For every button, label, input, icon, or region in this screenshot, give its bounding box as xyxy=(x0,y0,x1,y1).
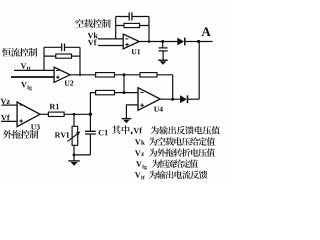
label Vf input xyxy=(1,115,10,121)
resistor R1-node-to-U4 input xyxy=(96,90,115,94)
label U1 xyxy=(131,49,140,54)
wire to summing node xyxy=(115,74,141,76)
ground at U4 input xyxy=(122,119,132,124)
wire U2 feedback right vertical xyxy=(79,47,81,75)
label no-load control 空载控制 xyxy=(75,19,111,28)
label Vz input xyxy=(1,99,10,105)
wire to U4 inverting input xyxy=(115,92,139,94)
capacitor U1 feedback xyxy=(129,12,132,20)
node A junction xyxy=(197,40,200,43)
node A label xyxy=(202,27,211,36)
wire capacitor to ground xyxy=(162,51,164,60)
resistor U2-to-U4 input xyxy=(96,73,115,77)
legend line 3 Vz 为外拖转折电压值 xyxy=(135,148,215,156)
wire bottom rail xyxy=(74,154,90,156)
wire to ground xyxy=(73,155,75,161)
label U4 xyxy=(154,107,163,112)
wire VIg to U2 non-inverting input xyxy=(11,76,54,78)
resistor R1 xyxy=(48,112,64,116)
wire U4 non-inverting to ground xyxy=(126,105,138,118)
resistor U2 feedback xyxy=(44,54,80,58)
wire down to RV1 xyxy=(73,114,75,126)
wire R1 to junctions xyxy=(64,113,90,115)
label VIf input xyxy=(21,63,31,70)
capacitor C1 xyxy=(85,131,96,134)
capacitor U2 feedback xyxy=(62,43,65,51)
resistor U1 feedback xyxy=(116,23,149,27)
wire U1 feedback left vertical xyxy=(115,17,117,39)
ground xyxy=(158,60,168,64)
op-amp U4 xyxy=(138,88,160,111)
resistor U4 feedback xyxy=(140,73,157,77)
wire U2 output xyxy=(70,74,96,76)
wire Vz to U3 inverting input xyxy=(2,104,18,106)
legend line 5 VIf 为输出电流反馈 xyxy=(135,170,207,179)
wire C1 to bottom rail xyxy=(89,134,91,155)
label constant-current control 恒流控制 xyxy=(2,48,37,57)
label C1 xyxy=(99,130,108,136)
wire D1 to node A xyxy=(186,41,213,43)
label U2 xyxy=(65,81,74,86)
diode D2 xyxy=(180,95,188,103)
junction RV1 tap xyxy=(73,113,76,116)
wire from R1 node up to lower summing resistor xyxy=(90,93,95,115)
label VIg input xyxy=(21,82,32,90)
op-amp U3 xyxy=(17,102,40,127)
legend line 2 Vk 为空载电压给定值 xyxy=(135,137,215,145)
junction U2 output feedback xyxy=(79,74,82,77)
label RV1 xyxy=(55,132,69,137)
diode D1 xyxy=(177,38,185,46)
wire U2 feedback top xyxy=(44,46,80,48)
wire U1 feedback right vertical xyxy=(148,17,150,42)
junction summing node top xyxy=(123,73,126,76)
junction C1 column xyxy=(89,113,92,116)
capacitor to ground xyxy=(159,48,168,51)
legend line 4 VIg 为恒流给定值 xyxy=(136,159,198,169)
label Vk xyxy=(88,32,98,38)
wire summing node vertical xyxy=(123,75,125,93)
ground at RV1 xyxy=(68,161,79,166)
wire Vk to U1 inverting input xyxy=(98,38,123,40)
wire Vf to U3 non-inverting input xyxy=(1,120,17,122)
wire C1 column upper xyxy=(89,114,91,131)
wire U4 feedback right xyxy=(157,75,173,99)
wire capacitor branch xyxy=(162,42,164,48)
wire node A down to U4 output diode xyxy=(198,42,200,100)
junction U4 output feedback xyxy=(171,98,174,101)
junction U1 output feedback xyxy=(148,40,151,43)
wire U1 feedback top xyxy=(116,16,149,18)
wire D2 to node A vertical xyxy=(188,98,199,100)
potentiometer RV1 xyxy=(67,126,80,145)
label Vf xyxy=(88,39,97,45)
junction U1 output capacitor tap xyxy=(161,40,164,43)
wire U3 output xyxy=(40,113,48,115)
wire RV1 to bottom rail xyxy=(73,145,75,155)
label R1 xyxy=(50,104,59,109)
wire Vf to U1 non-inverting input xyxy=(98,45,123,47)
wire U4 output xyxy=(160,98,180,100)
legend line 1 其中:Vf 为输出反馈电压值 xyxy=(112,125,220,134)
op-amp U1 xyxy=(123,34,139,49)
label U3 xyxy=(31,124,40,129)
label external-droop control 外拖控制 xyxy=(3,130,38,139)
wire U2 feedback left vertical xyxy=(43,47,45,70)
wire VIf to U2 inverting input xyxy=(14,69,54,71)
junction ground node xyxy=(73,153,76,156)
junction summing node bottom xyxy=(123,91,126,94)
op-amp U2 xyxy=(54,67,70,82)
wire U1 output xyxy=(139,41,177,43)
